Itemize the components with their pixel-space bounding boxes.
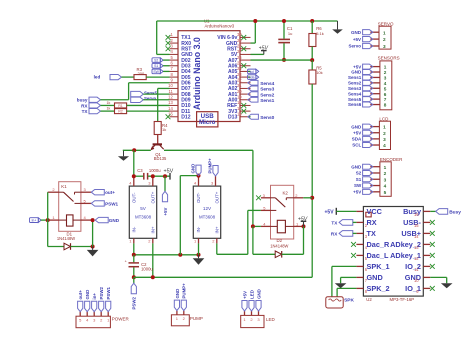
pin 3 stub left U1: [170, 48, 179, 50]
svg-text:R1: R1: [118, 104, 123, 108]
svg-text:busy: busy: [77, 98, 88, 103]
svg-text:PUMP+: PUMP+: [208, 158, 213, 174]
junction A07: [310, 58, 314, 62]
no-connect X pin 30: [241, 35, 246, 40]
svg-text:Sens3: Sens3: [260, 87, 274, 93]
svg-text:7: 7: [384, 97, 387, 102]
svg-text:SDA: SDA: [352, 137, 362, 142]
net tag PUMP+ m2: [213, 166, 218, 177]
net tag LED LED: [249, 301, 254, 312]
pin 5 stub POWER: [79, 312, 81, 317]
svg-text:C3: C3: [137, 168, 143, 173]
pin 8 stub U2: [356, 287, 363, 289]
svg-text:Sens5: Sens5: [348, 97, 362, 102]
ground U2 left: [340, 282, 342, 284]
svg-text:27: 27: [237, 49, 242, 54]
net tag GND POWER: [85, 301, 90, 312]
svg-text:21: 21: [237, 83, 242, 88]
pin 1 stub IN- m2: [198, 238, 200, 243]
wire vertical up left: [156, 21, 158, 54]
junction emitter: [132, 148, 136, 152]
resistor R3: [134, 75, 146, 80]
net tag busy: [89, 97, 101, 102]
wire SW: [163, 70, 169, 72]
svg-text:1N4148W: 1N4148W: [270, 243, 288, 248]
wire 5V pin27: [251, 53, 264, 55]
junction D1 right: [91, 245, 95, 249]
net tag GND ENCODER: [363, 164, 373, 169]
svg-text:led: led: [94, 75, 101, 80]
pin 30 stub right U1: [240, 36, 251, 38]
svg-text:TX: TX: [331, 220, 338, 225]
svg-text:MT3608: MT3608: [199, 215, 216, 220]
pin 4 stub U2: [356, 243, 363, 245]
pin 3 stub SERVO: [370, 45, 379, 47]
net tag Servo SERVO: [363, 43, 373, 48]
svg-text:Micro: Micro: [199, 119, 216, 126]
wire gnd rail: [134, 254, 199, 256]
wire IN+ m2 right: [217, 253, 248, 255]
junction C2 bottom: [132, 275, 136, 279]
wire R3 to D05: [146, 76, 169, 78]
no-connect X U2 pin 12: [430, 253, 435, 258]
wire up to rail: [254, 21, 256, 43]
no-connect X U2 pin 15: [430, 220, 435, 225]
net tag sda: [248, 75, 256, 80]
svg-text:PSW2: PSW2: [132, 296, 137, 309]
svg-text:10k: 10k: [316, 70, 322, 75]
svg-text:ENCODER: ENCODER: [380, 157, 403, 162]
svg-text:22: 22: [237, 77, 242, 82]
resistor R1: [115, 103, 127, 108]
svg-text:15: 15: [414, 223, 419, 228]
pin 12 stub U2: [423, 254, 430, 256]
svg-text:TX: TX: [82, 109, 89, 114]
wire TX to R2: [101, 110, 115, 112]
net tag GND LCD: [363, 124, 373, 129]
wire led to R3: [122, 76, 135, 78]
svg-text:5V: 5V: [140, 206, 147, 211]
svg-text:14: 14: [414, 234, 419, 239]
net tag RX U2: [339, 231, 353, 237]
svg-text:out+: out+: [78, 290, 83, 300]
pin 8 stub SENSORS: [370, 104, 380, 106]
svg-text:5.1k: 5.1k: [316, 31, 324, 36]
junction K2 pin2: [310, 196, 314, 200]
pin 15 stub U2: [423, 221, 430, 223]
svg-text:SPK_2: SPK_2: [367, 284, 390, 293]
svg-text:19: 19: [237, 94, 242, 99]
diode D1: [64, 243, 71, 250]
svg-text:SENSORS: SENSORS: [378, 55, 400, 60]
no-connect X pin 17: [241, 109, 246, 114]
svg-text:LED: LED: [266, 317, 276, 322]
supply +5V bar: [169, 173, 171, 180]
svg-text:+5V: +5V: [242, 291, 247, 299]
relay K1 box: [59, 182, 81, 232]
connector LCD box: [379, 121, 390, 149]
wire S2: [163, 59, 169, 61]
contact K2: [271, 197, 276, 199]
pin 4 stub SENSORS: [370, 82, 380, 84]
pin 5 stub SENSORS: [370, 87, 380, 89]
no-connect X U2 pin4: [351, 242, 356, 247]
svg-text:1000u: 1000u: [141, 266, 153, 271]
wire GND pin29 right: [251, 42, 256, 44]
svg-text:SPK_1: SPK_1: [367, 262, 390, 271]
wire C2 bottom: [133, 268, 135, 278]
svg-text:1k: 1k: [107, 107, 111, 111]
junction gnd rail left: [132, 253, 136, 257]
svg-text:IN+: IN+: [214, 226, 219, 233]
wire Servo to D09: [143, 99, 169, 101]
svg-text:26: 26: [237, 55, 242, 60]
connector PUMP box: [171, 315, 189, 326]
pin 9 stub U2: [423, 287, 430, 289]
junction out-: [132, 174, 136, 178]
net tag S1 ENCODER: [363, 177, 373, 182]
no-connect X pin 25: [241, 63, 246, 68]
svg-text:OUT+: OUT+: [150, 191, 155, 203]
svg-text:2: 2: [384, 70, 387, 75]
svg-text:PUMP: PUMP: [190, 316, 203, 321]
svg-text:1: 1: [383, 125, 386, 130]
svg-text:IO_2: IO_2: [405, 262, 421, 271]
ic U2 MP3-TF-16P box: [363, 207, 423, 297]
pin 29 stub right U1: [240, 42, 251, 44]
pin 16 stub U2: [423, 210, 430, 212]
contact K1: [59, 191, 64, 193]
svg-text:S2: S2: [154, 58, 158, 62]
pin 22 stub right U1: [240, 82, 251, 84]
svg-text:1000u: 1000u: [149, 168, 161, 173]
svg-text:12V: 12V: [203, 206, 212, 211]
wire coil drive down: [252, 226, 254, 254]
svg-text:LCD: LCD: [379, 116, 389, 121]
svg-text:1u: 1u: [288, 31, 292, 36]
no-connect X pin 18: [241, 103, 246, 108]
junction: [253, 19, 257, 23]
svg-text:4: 4: [383, 143, 386, 148]
net tag Sens3 SENSORS: [363, 86, 373, 91]
svg-text:U2: U2: [366, 297, 372, 302]
wire in+ rail: [134, 276, 312, 278]
pin 15 stub left U1: [170, 116, 179, 118]
pin 13 stub left U1: [170, 104, 179, 106]
net tag Sens2: [248, 92, 258, 97]
pin 3 stub K1: [81, 191, 91, 193]
svg-text:2: 2: [383, 131, 386, 136]
svg-text:12: 12: [414, 256, 419, 261]
wire R6 top: [311, 21, 313, 34]
net tag Sens4: [248, 80, 258, 85]
pin 4 stub ENCODER: [370, 185, 380, 187]
pin 13 stub U2: [423, 243, 430, 245]
svg-text:4: 4: [384, 81, 387, 86]
pin 3 stub LED: [258, 311, 260, 315]
wire gnd to emitter: [123, 149, 151, 151]
net tag in+: [30, 218, 39, 223]
wire psw2 drop: [133, 277, 135, 283]
wire D07 to R4 vert: [158, 87, 170, 89]
svg-text:D12: D12: [181, 115, 191, 121]
svg-text:OUT-: OUT-: [131, 192, 136, 203]
net tag +5V ENCODER: [363, 189, 373, 194]
pin 14 stub U2: [423, 232, 430, 234]
net tag PSW1: [91, 201, 104, 206]
pin 4 stub LCD: [370, 144, 379, 146]
net tag Sens5: [131, 91, 144, 96]
wire GND U2 right: [430, 276, 446, 278]
svg-text:Dac_L: Dac_L: [367, 251, 389, 260]
net tag S2 ENCODER: [363, 170, 373, 175]
pin 3 stub U2: [356, 232, 363, 234]
pin 4 stub OUT-: [133, 176, 135, 186]
svg-text:GND: GND: [191, 164, 196, 174]
svg-text:TX: TX: [367, 229, 376, 238]
junction out+: [151, 174, 155, 178]
junction +5V tagdrop: [163, 174, 167, 178]
svg-text:11: 11: [414, 267, 419, 272]
pin 10 stub left U1: [170, 87, 179, 89]
svg-text:Busy: Busy: [449, 209, 461, 215]
net tag TX U2: [339, 220, 353, 226]
wire IN+ down: [152, 243, 154, 277]
net tag Busy: [436, 209, 448, 215]
pin 1 stub LED: [244, 311, 246, 315]
pin 1 stub SERVO: [370, 31, 379, 33]
pin 23 stub right U1: [240, 76, 251, 78]
svg-text:Sens3: Sens3: [348, 86, 362, 91]
svg-text:5: 5: [384, 190, 387, 195]
no-connect X U2 pin 9: [430, 286, 435, 291]
pin 4 stub K2: [261, 225, 271, 227]
svg-text:Sens6: Sens6: [348, 102, 362, 107]
svg-text:Busy: Busy: [403, 207, 422, 216]
net tag in+ POWER: [92, 301, 97, 312]
wire +5V to VCC: [336, 210, 356, 212]
net tag Sens4 SENSORS: [363, 91, 373, 96]
net tag +5V SERVO: [363, 37, 373, 42]
svg-text:PSW2: PSW2: [99, 286, 104, 299]
svg-text:Sens4: Sens4: [260, 81, 274, 87]
connector POWER box: [76, 316, 110, 328]
no-connect X U2 pin5: [351, 253, 356, 258]
svg-text:GND: GND: [351, 70, 362, 75]
pin 6 stub left U1: [170, 65, 179, 67]
pin 12 stub left U1: [170, 99, 179, 101]
net tag Sens1 SENSORS: [363, 75, 373, 80]
pin 3 stub SENSORS: [370, 76, 380, 78]
svg-text:30: 30: [237, 32, 242, 37]
net tag GND PUMP: [174, 300, 179, 311]
pin 1 stub ENCODER: [370, 166, 380, 168]
svg-text:11: 11: [168, 89, 173, 94]
svg-text:1k: 1k: [162, 127, 166, 132]
wire R4 to Q1 base: [157, 135, 159, 144]
no-connect X pin 3: [166, 46, 171, 51]
junction gnd rail right: [197, 253, 201, 257]
net tag Sens5 SENSORS: [363, 97, 373, 102]
svg-text:GND: GND: [351, 30, 362, 35]
junction K1 pin1: [46, 218, 50, 222]
pin 1 stub IN-: [133, 238, 135, 243]
pin 2 stub U2: [356, 221, 363, 223]
svg-text:Sens0: Sens0: [260, 115, 274, 121]
pin 3 stub POWER: [93, 312, 95, 317]
wire K2 pin2: [303, 197, 312, 199]
svg-text:Sens2: Sens2: [348, 81, 362, 86]
coil K2: [271, 225, 278, 227]
wire to K2 pin5: [248, 209, 261, 211]
pin 1 stub LCD: [370, 126, 379, 128]
wire RX to R1: [101, 104, 115, 106]
net tag Sens3: [248, 86, 258, 91]
wire R2 to D11: [127, 110, 170, 112]
pin 28 stub right U1: [240, 48, 251, 50]
svg-text:+5V: +5V: [353, 130, 361, 135]
wire up to K2 pin5: [247, 210, 249, 254]
transistor Q1 BD135: [153, 143, 162, 145]
svg-text:29: 29: [237, 38, 242, 43]
svg-text:1: 1: [384, 165, 387, 170]
wire D1 up to pin4: [92, 220, 94, 246]
wire SPK_1 left: [332, 265, 357, 267]
wire SPK_1 down: [331, 266, 333, 296]
svg-text:GND: GND: [175, 289, 180, 299]
svg-text:23: 23: [237, 72, 242, 77]
svg-text:+5V: +5V: [353, 37, 361, 42]
pin 11 stub U2: [423, 265, 430, 267]
wire C2 top: [133, 255, 135, 262]
svg-text:20: 20: [237, 89, 242, 94]
wire rail up to K2 pin2: [311, 198, 313, 277]
svg-text:RX: RX: [367, 218, 377, 227]
pin 5 stub U2: [356, 254, 363, 256]
pin 2 stub SENSORS: [370, 71, 380, 73]
net tag out+ POWER: [78, 301, 83, 312]
svg-text:PUMP+: PUMP+: [182, 283, 187, 299]
wire A04: [248, 76, 250, 78]
pin 2 stub PUMP: [183, 311, 185, 315]
svg-text:SERVO: SERVO: [378, 21, 394, 26]
pin 3 stub ENCODER: [370, 178, 380, 180]
svg-text:4: 4: [384, 184, 387, 189]
wire R5 top: [311, 60, 313, 70]
net tag PSW2 POWER: [99, 301, 104, 312]
svg-text:+5V: +5V: [325, 210, 335, 216]
svg-text:GND: GND: [405, 273, 421, 282]
svg-text:25: 25: [237, 60, 242, 65]
coil K1: [59, 219, 67, 221]
wire out- to C3: [134, 175, 144, 177]
wire R6 bottom: [311, 47, 313, 61]
svg-text:scl: scl: [250, 70, 254, 74]
wire GND right down: [446, 277, 448, 283]
no-connect X K2 pin3: [256, 195, 261, 200]
supply +5V stub: [263, 51, 265, 55]
svg-text:Sens2: Sens2: [260, 92, 274, 98]
svg-text:out+: out+: [105, 190, 115, 195]
junction K1 pin4: [91, 218, 95, 222]
wire D2 cathode: [282, 253, 304, 255]
wire in+ to K1 pin1: [41, 219, 48, 221]
speaker SPK box: [326, 297, 343, 308]
pin1 marker square: [366, 212, 371, 217]
svg-text:18: 18: [237, 100, 242, 105]
net tag GND m2: [196, 165, 201, 176]
svg-text:3: 3: [383, 44, 386, 49]
net tag +5V LCD: [363, 130, 373, 135]
pin 18 stub right U1: [240, 104, 251, 106]
wire K2 pin4: [253, 225, 261, 227]
pin 3 stub OUT+ m2: [215, 176, 217, 186]
net tag TX: [89, 109, 101, 114]
pin 2 stub SERVO: [370, 38, 379, 40]
svg-text:GND: GND: [256, 289, 261, 299]
svg-text:1: 1: [384, 65, 387, 70]
svg-text:3: 3: [384, 76, 387, 81]
pin 7 stub left U1: [170, 70, 179, 72]
wire GND U2 left: [341, 276, 357, 278]
svg-text:IO_1: IO_1: [405, 284, 421, 293]
pin 2 stub K2: [294, 197, 304, 199]
pin 2 stub ENCODER: [370, 172, 380, 174]
pin 25 stub right U1: [240, 65, 251, 67]
wire top rail: [157, 20, 338, 22]
wire busy to D06: [129, 82, 170, 84]
svg-text:in+: in+: [32, 219, 37, 223]
wire collector down: [252, 150, 254, 226]
junction R6 rail: [310, 19, 314, 23]
svg-text:+5V: +5V: [164, 169, 174, 175]
junction gnd rail mid: [178, 253, 182, 257]
pin 1 stub K1: [48, 219, 59, 221]
svg-text:2: 2: [384, 171, 387, 176]
svg-text:IN-: IN-: [196, 226, 201, 232]
pin 2 stub POWER: [100, 312, 102, 317]
connector SENSORS box: [380, 61, 392, 110]
net tag +5V LED: [242, 301, 247, 312]
svg-text:200: 200: [138, 71, 145, 76]
svg-text:in+: in+: [92, 293, 97, 300]
pin 2 stub IN+ m2: [216, 238, 218, 243]
svg-text:SPK: SPK: [344, 297, 354, 303]
pin 2 stub K1: [48, 191, 59, 193]
svg-text:24: 24: [237, 66, 242, 71]
wire C3 to +5V bar: [148, 175, 170, 177]
svg-text:BD135: BD135: [154, 156, 167, 161]
net tag Sens6 SENSORS: [363, 102, 373, 107]
net tag GND SERVO: [363, 30, 373, 35]
net tag +5V vertical: [162, 191, 167, 202]
net tag GND K1: [95, 217, 108, 222]
pin 5 stub ENCODER: [370, 191, 380, 193]
svg-text:GND: GND: [351, 164, 362, 169]
svg-text:VCC: VCC: [367, 207, 383, 216]
wire GND pin4 to vertical: [157, 53, 170, 55]
svg-text:17: 17: [237, 106, 242, 111]
pin 2 stub IN+: [152, 238, 154, 243]
wire GND U2 down: [340, 277, 342, 283]
microcontroller U1 ArduinoNanov3 box: [178, 31, 240, 122]
pin 4 stub OUT- m2: [198, 176, 200, 187]
relay K2 box: [271, 185, 294, 239]
capacitor C2: [129, 262, 140, 264]
pin 9 stub left U1: [170, 82, 179, 84]
diode D2: [275, 251, 282, 258]
pin 4 stub K1: [81, 219, 93, 221]
